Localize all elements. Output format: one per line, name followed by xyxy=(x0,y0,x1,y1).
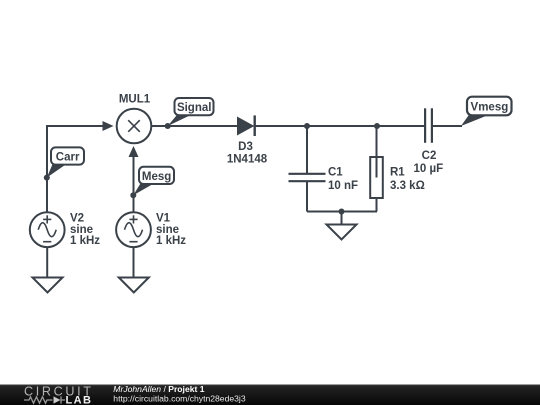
svg-text:D3: D3 xyxy=(238,141,253,153)
svg-text:10 µF: 10 µF xyxy=(413,163,443,175)
node E (ground tap) xyxy=(339,209,345,215)
svg-text:1 kHz: 1 kHz xyxy=(70,235,100,247)
logo resistor zigzag and diode glyph xyxy=(24,396,65,403)
svg-text:C1: C1 xyxy=(328,167,343,179)
node C (Signal anchor) xyxy=(165,123,171,129)
diode D3 xyxy=(237,115,255,136)
wire node E to ground xyxy=(341,212,343,225)
svg-text:1 kHz: 1 kHz xyxy=(156,235,186,247)
svg-text:Carr: Carr xyxy=(56,152,80,164)
wire V1 up to MUL1 bottom input xyxy=(133,150,135,213)
wire arrow into MUL1 left input xyxy=(103,121,114,131)
op-amp: multiplier MUL1 xyxy=(117,109,152,144)
svg-text:Mesg: Mesg xyxy=(142,171,171,183)
wire C2 to Vmesg xyxy=(432,125,462,127)
voltage source V1 xyxy=(116,212,151,247)
wire R1 to bottom rail xyxy=(376,198,378,212)
label flag Vmesg xyxy=(461,97,512,126)
svg-text:V1: V1 xyxy=(156,213,171,225)
node B (Mesg anchor) xyxy=(130,192,136,198)
label flag Mesg xyxy=(133,167,174,195)
wire arrow into MUL1 bottom input xyxy=(129,146,139,157)
label flag Carr xyxy=(47,147,84,177)
wire node F down into R1 xyxy=(376,126,378,178)
svg-text:http://circuitlab.com/chytn28e: http://circuitlab.com/chytn28ede3j3 xyxy=(113,394,246,404)
footer bar xyxy=(0,385,540,405)
ground under V2 xyxy=(33,278,63,293)
svg-text:sine: sine xyxy=(70,224,93,236)
svg-text:1N4148: 1N4148 xyxy=(227,153,268,165)
wire diode to C2 xyxy=(255,125,425,127)
resistor R1 xyxy=(370,157,383,198)
svg-text:10 nF: 10 nF xyxy=(328,180,358,192)
wire node D down to C1 xyxy=(306,126,308,174)
svg-text:Signal: Signal xyxy=(177,102,212,114)
svg-text:3.3 kΩ: 3.3 kΩ xyxy=(390,180,425,192)
svg-text:C2: C2 xyxy=(422,150,437,162)
wire V1 to ground xyxy=(133,247,135,277)
node F (R1 tap) xyxy=(374,123,380,129)
wire from V2 up to top-left corner xyxy=(47,126,104,213)
svg-text:MrJohnAllen / Projekt 1: MrJohnAllen / Projekt 1 xyxy=(113,384,204,394)
capacitor C2 xyxy=(425,108,432,143)
capacitor C1 xyxy=(289,174,326,181)
svg-text:MUL1: MUL1 xyxy=(119,94,151,106)
ground middle xyxy=(327,225,357,240)
voltage source V2 xyxy=(30,212,65,247)
svg-text:Vmesg: Vmesg xyxy=(471,101,509,113)
svg-text:V2: V2 xyxy=(70,213,84,225)
svg-text:R1: R1 xyxy=(390,167,405,179)
node A (Carr anchor) xyxy=(44,175,50,181)
CircuitLab logo wordmark xyxy=(24,384,94,405)
svg-text:LAB: LAB xyxy=(66,394,93,405)
wire bottom rail xyxy=(307,211,377,213)
node D (C1 tap) xyxy=(304,123,310,129)
wire C1 down to bottom rail xyxy=(306,181,308,211)
svg-text:sine: sine xyxy=(156,224,179,236)
wire V2 to ground xyxy=(46,247,48,277)
label flag Signal xyxy=(168,98,214,126)
ground under V1 xyxy=(119,278,149,293)
wire MUL1 output to diode xyxy=(151,125,237,127)
